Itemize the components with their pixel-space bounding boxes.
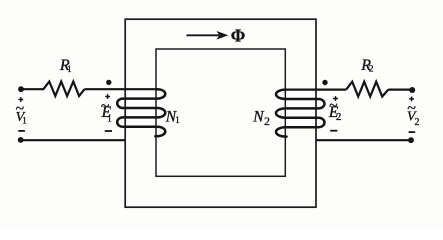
label V2 with tilde [407, 100, 420, 128]
svg-text:2: 2 [415, 117, 420, 128]
svg-text:2: 2 [336, 111, 342, 123]
label N2 [252, 109, 270, 128]
svg-text:1: 1 [107, 113, 112, 123]
plus E2 [333, 96, 338, 101]
terminal dot right bottom [408, 137, 414, 143]
plus E1 [105, 94, 110, 99]
terminal dot left top [18, 86, 24, 92]
flux arrow [187, 31, 229, 40]
label N1 [165, 109, 180, 126]
svg-text:~: ~ [407, 100, 416, 117]
label E2 with tilde [328, 98, 342, 124]
wire: right bottom return [316, 139, 411, 141]
svg-text:1: 1 [67, 64, 72, 74]
polarity dot right [322, 80, 327, 85]
polarity dot left [106, 80, 111, 85]
wire: from resistor to winding N1 [85, 88, 158, 90]
svg-text:1: 1 [175, 115, 180, 125]
plus V2 [409, 97, 414, 102]
minus V1 [18, 130, 25, 132]
winding N1 [117, 89, 165, 136]
winding N2 [276, 90, 325, 137]
wire: from resistor R2 to right terminal [388, 88, 412, 90]
svg-text:2: 2 [369, 65, 374, 75]
label R1 [59, 57, 72, 74]
svg-text:Φ: Φ [231, 25, 246, 45]
minus E1 [105, 130, 112, 132]
transformer core inner rectangle [156, 49, 285, 176]
svg-text:1: 1 [22, 115, 27, 125]
terminal dot right top [409, 87, 415, 93]
label R2 [360, 57, 374, 75]
svg-text:2: 2 [264, 114, 270, 128]
label V1 with tilde [16, 101, 27, 126]
minus V2 [409, 131, 416, 133]
wire: left top from terminal to resistor [21, 88, 44, 90]
transformer core outer rectangle [125, 19, 316, 207]
terminal dot left bottom [18, 137, 24, 143]
wire: right top from winding to resistor R2 [286, 88, 347, 90]
wire: left bottom return [21, 139, 126, 141]
plus V1 [18, 97, 23, 102]
label E1 with tilde [101, 98, 112, 123]
minus E2 [330, 130, 337, 132]
resistor R2 [346, 82, 388, 97]
resistor R1 [43, 82, 84, 97]
